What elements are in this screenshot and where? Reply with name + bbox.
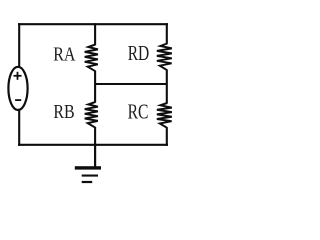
plus polarity mark [14, 72, 22, 80]
svg-text:RB: RB [53, 101, 74, 123]
wire right side mid lead [166, 70, 168, 104]
svg-text:RD: RD [128, 41, 150, 65]
wire bottom rail [18, 144, 168, 146]
wire middle branch mid lead [94, 71, 96, 103]
resistor RD [157, 44, 172, 71]
wire middle branch lower lead [94, 127, 96, 146]
ground [75, 166, 101, 183]
ground stem wire [94, 145, 96, 167]
wire top rail [18, 23, 168, 25]
wire left side upper [18, 23, 20, 67]
minus polarity mark [15, 99, 21, 101]
resistor RA [85, 45, 98, 72]
wire middle horizontal rail [95, 83, 167, 85]
svg-text:RC: RC [128, 100, 149, 124]
svg-text:RA: RA [53, 44, 75, 66]
wire right side lower lead [166, 127, 168, 146]
wire left side lower [18, 110, 20, 146]
resistor RB [85, 102, 98, 128]
wire right side upper lead [166, 23, 168, 44]
voltage source V1 [8, 67, 27, 110]
resistor RC [157, 103, 172, 128]
wire middle branch upper lead [94, 23, 96, 45]
